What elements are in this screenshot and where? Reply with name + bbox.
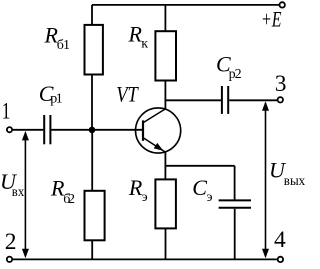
Uvyx measuring line [265,103,267,256]
svg-text:б2: б2 [63,192,75,207]
terminal 1 [7,127,12,132]
svg-text:p2: p2 [229,67,242,82]
Uvx arrow down [22,249,29,258]
terminal 2 [7,257,12,262]
wire Rk bottom to collector [164,81,166,110]
svg-text:+E: +E [261,7,282,32]
svg-text:2: 2 [5,229,17,255]
resistor Rb2 [85,191,105,241]
transistor VT emitter stroke [143,138,165,153]
wire top supply rail [92,4,279,6]
wire base node to Rb2 [91,130,93,191]
wire Rb1 top [91,5,93,25]
Uvx arrow up [22,131,29,141]
wire bottom rail [13,258,277,260]
Uvyx arrow down [262,249,269,258]
svg-text:вх: вх [12,185,24,200]
svg-text:4: 4 [274,227,286,253]
svg-text:VT: VT [116,82,139,107]
wire Rb1 bottom to base node [91,75,93,130]
capacitor Ce [219,200,251,207]
transistor VT base bar [142,120,144,140]
svg-text:э: э [142,190,148,205]
wire Cp2 to terminal 3 [229,99,277,101]
wire Ce bottom [234,209,236,260]
capacitor Cp1 [44,115,50,144]
resistor Rk [155,31,176,80]
svg-text:R: R [128,22,143,47]
transistor VT emitter arrow [154,143,164,151]
resistor Re [155,179,176,228]
capacitor Cp2 [222,86,228,114]
svg-text:3: 3 [275,71,287,97]
transistor VT collector stroke [143,109,165,123]
wire Rb2 bottom [91,240,93,259]
wire Ce top [234,166,236,200]
svg-text:э: э [207,190,213,205]
svg-text:к: к [141,37,148,52]
wire Cp1 to base [51,129,142,131]
svg-text:p1: p1 [50,92,63,107]
wire collector node to Cp2 [165,99,221,101]
node base junction dot [89,127,96,134]
wire Rk top [164,5,166,31]
Uvyx arrow up [262,101,269,111]
wire emitter down [164,152,166,179]
terminal +E [280,2,285,7]
wire terminal 1 to Cp1 [13,129,44,131]
svg-text:вых: вых [284,174,305,189]
wire Re bottom [165,228,167,259]
terminal 4 [278,257,283,262]
wire emitter branch to Ce [165,165,234,167]
svg-text:C: C [192,175,207,200]
transistor VT circle [136,108,181,153]
resistor Rb1 [85,25,103,75]
terminal 3 [278,97,283,102]
svg-text:б1: б1 [57,38,70,53]
Uvx measuring line [24,133,26,256]
svg-text:1: 1 [2,98,11,124]
